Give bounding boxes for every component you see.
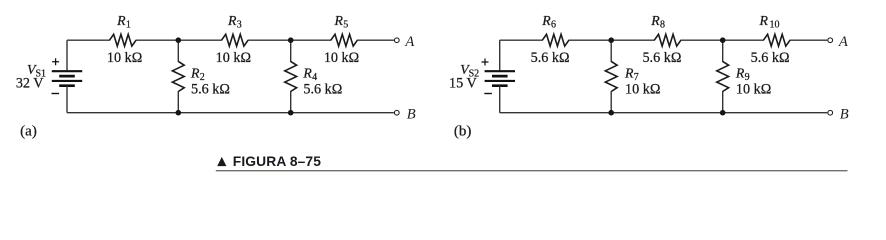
wire top rail segment 1 (b): [500, 39, 543, 41]
svg-text:B: B: [840, 106, 849, 122]
svg-text:15 V: 15 V: [449, 76, 477, 92]
resistor R8 5.6 kΩ: [642, 13, 681, 66]
caption rule: [216, 170, 848, 172]
svg-text:B: B: [407, 106, 416, 122]
svg-text:5.6 kΩ: 5.6 kΩ: [751, 50, 790, 66]
svg-text:A: A: [404, 34, 414, 50]
voltage source VS2 15 V: [449, 40, 515, 113]
wire top rail segment 3 (b): [680, 39, 764, 41]
resistor R3 10 kΩ: [216, 13, 251, 66]
svg-text:32 V: 32 V: [16, 76, 44, 92]
svg-text:5.6 kΩ: 5.6 kΩ: [642, 50, 681, 66]
terminal B (a): [394, 106, 415, 122]
resistor R6 5.6 kΩ: [531, 13, 570, 66]
svg-text:R10: R10: [759, 13, 780, 30]
svg-text:10 kΩ: 10 kΩ: [107, 50, 142, 66]
wire top rail segment 2 (a): [136, 39, 222, 41]
svg-text:(b): (b): [454, 124, 472, 140]
svg-text:R4: R4: [302, 66, 317, 83]
wire bottom rail (a): [67, 112, 394, 114]
svg-text:10 kΩ: 10 kΩ: [736, 81, 771, 97]
svg-text:R8: R8: [650, 13, 665, 30]
svg-text:R9: R9: [735, 66, 750, 83]
svg-text:10 kΩ: 10 kΩ: [625, 81, 660, 97]
svg-text:A: A: [838, 34, 848, 50]
wire top rail segment 2 (b): [568, 39, 654, 41]
junction node dots (a): [176, 37, 294, 115]
resistor R5 10 kΩ: [324, 13, 359, 66]
terminal A (a): [394, 34, 414, 50]
resistor R9 10 kΩ: [717, 40, 771, 113]
svg-text:R2: R2: [190, 66, 205, 83]
svg-text:(a): (a): [20, 124, 37, 140]
resistor R10 5.6 kΩ: [751, 13, 790, 66]
resistor R7 10 kΩ: [605, 40, 660, 113]
wire top rail to terminal A (b): [790, 39, 828, 41]
svg-text:10 kΩ: 10 kΩ: [216, 50, 251, 66]
terminal A (b): [828, 34, 848, 50]
wire top rail segment 1 (a): [67, 39, 110, 41]
svg-text:R5: R5: [334, 13, 349, 30]
svg-text:R3: R3: [227, 13, 242, 30]
svg-text:R6: R6: [541, 13, 556, 30]
junction node dots (b): [608, 37, 725, 115]
svg-text:5.6 kΩ: 5.6 kΩ: [303, 81, 342, 97]
figure caption marker triangle: [217, 157, 226, 166]
svg-text:5.6 kΩ: 5.6 kΩ: [191, 81, 230, 97]
resistor R2 5.6 kΩ: [172, 40, 230, 113]
wire top rail segment 3 (a): [248, 39, 332, 41]
resistor R4 5.6 kΩ: [285, 40, 343, 113]
voltage source VS1 32 V: [16, 40, 82, 113]
svg-text:R1: R1: [116, 13, 131, 30]
terminal B (b): [828, 106, 849, 122]
svg-text:R7: R7: [624, 66, 639, 83]
svg-text:FIGURA 8–75: FIGURA 8–75: [233, 154, 321, 169]
resistor R1 10 kΩ: [107, 13, 142, 66]
wire bottom rail (b): [500, 112, 828, 114]
svg-text:10 kΩ: 10 kΩ: [324, 50, 359, 66]
wire top rail to terminal A (a): [357, 39, 394, 41]
svg-text:5.6 kΩ: 5.6 kΩ: [531, 50, 570, 66]
